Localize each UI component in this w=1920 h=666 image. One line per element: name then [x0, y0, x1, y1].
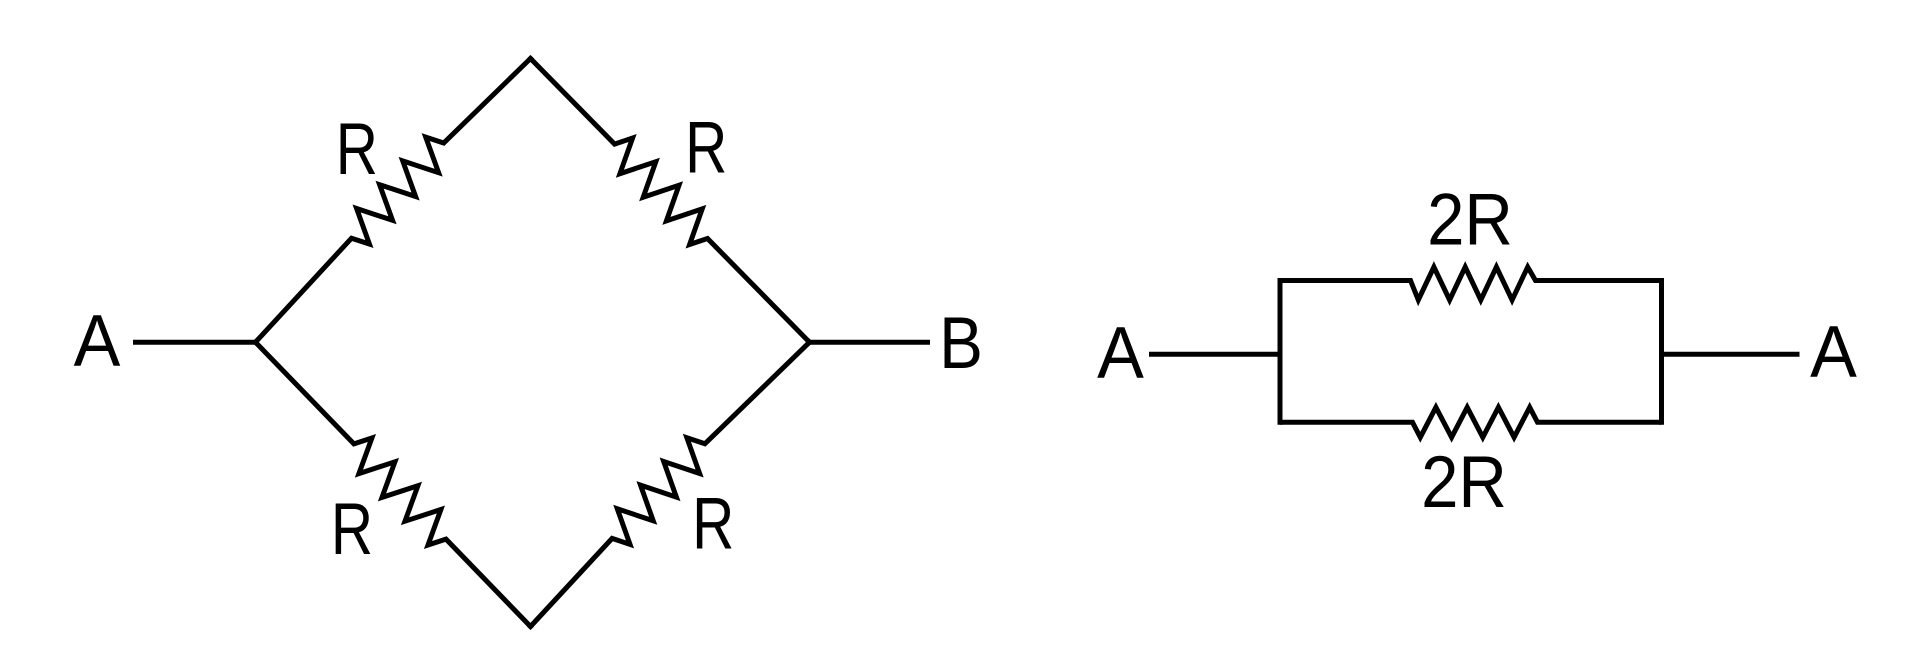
svg-text:R: R	[692, 483, 734, 565]
resistor 2R (top branch) with wires	[1280, 267, 1662, 300]
svg-text:R: R	[336, 109, 378, 191]
resistor R (bottom-right arm) with wire	[531, 342, 810, 626]
svg-text:B: B	[939, 302, 983, 384]
svg-text:2R: 2R	[1421, 441, 1507, 522]
svg-text:A: A	[1097, 313, 1144, 395]
svg-text:R: R	[685, 107, 727, 189]
wire: A lead to left junction	[133, 340, 256, 345]
junction: right vertex of bridge	[806, 339, 813, 346]
wire: box to right A lead	[1662, 352, 1800, 357]
svg-text:A: A	[1810, 312, 1857, 394]
resistor R (top-right arm) with wire	[531, 59, 810, 343]
wire: right side of parallel box	[1659, 278, 1664, 425]
svg-text:2R: 2R	[1427, 179, 1513, 260]
junction: top vertex of bridge	[527, 55, 534, 62]
svg-text:R: R	[331, 489, 373, 571]
wire: left A lead to box	[1149, 352, 1280, 357]
junction: left vertex of bridge	[252, 339, 259, 346]
svg-text:A: A	[74, 301, 121, 383]
resistor R (top-left arm) with wire	[256, 59, 531, 343]
wire: right junction to B lead	[810, 340, 931, 345]
resistor 2R (bottom branch) with wires	[1280, 407, 1662, 437]
resistor R (bottom-left arm) with wire	[256, 342, 531, 626]
wire: left side of parallel box	[1278, 278, 1283, 425]
junction: bottom vertex of bridge	[527, 623, 534, 630]
